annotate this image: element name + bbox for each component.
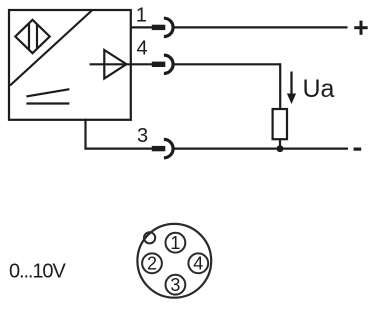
analog-ramp symbol (two lines): [26, 89, 69, 96]
wire 4 (box to connector): [131, 63, 152, 65]
wire 3 horizontal to connector: [84, 148, 152, 150]
wire 4 horizontal run: [173, 63, 280, 65]
pin 3 circle: [166, 275, 186, 295]
svg-text:4: 4: [193, 254, 203, 274]
connector socket arc (wire 1): [164, 18, 173, 36]
connector socket arc (wire 3): [164, 139, 173, 157]
svg-text:Ua: Ua: [303, 75, 335, 103]
connector pin bar (wire 4): [152, 62, 166, 67]
inductive sensor symbol (diamond with two vertical lines): [15, 20, 49, 53]
internal wire through amplifier: [90, 63, 131, 65]
minus rail (connector to -): [173, 148, 348, 150]
pin 2 circle: [142, 253, 162, 273]
svg-text:1: 1: [170, 233, 180, 253]
wire 1 (connector to +): [173, 26, 347, 28]
Ua arrow: [290, 72, 292, 96]
diagonal divider line: [10, 11, 92, 86]
keying notch: [144, 232, 155, 243]
pin 1 circle: [166, 233, 186, 253]
svg-text:0...10V: 0...10V: [9, 260, 66, 282]
svg-text:4: 4: [136, 38, 147, 60]
plus terminal: [354, 21, 368, 35]
minus terminal: [354, 148, 362, 151]
wire 4 vertical drop to load: [279, 63, 281, 109]
sensor body U1 (outline box): [9, 10, 131, 120]
svg-text:1: 1: [136, 5, 147, 27]
pin 4 circle: [188, 253, 208, 273]
svg-text:3: 3: [137, 125, 148, 147]
svg-text:2: 2: [147, 254, 157, 274]
M12 connector face (outer circle): [137, 224, 211, 298]
wire 3 vertical drop from box: [84, 119, 86, 149]
connector socket arc (wire 4): [164, 55, 173, 73]
load resistor RL: [273, 109, 287, 139]
connector pin bar (wire 1): [152, 25, 166, 30]
junction node: [277, 145, 284, 152]
amplifier triangle: [104, 50, 126, 79]
connector pin bar (wire 3): [152, 146, 166, 151]
wire 1 (box to connector): [131, 26, 152, 28]
svg-text:3: 3: [170, 275, 180, 295]
wire resistor to minus rail: [279, 139, 281, 149]
